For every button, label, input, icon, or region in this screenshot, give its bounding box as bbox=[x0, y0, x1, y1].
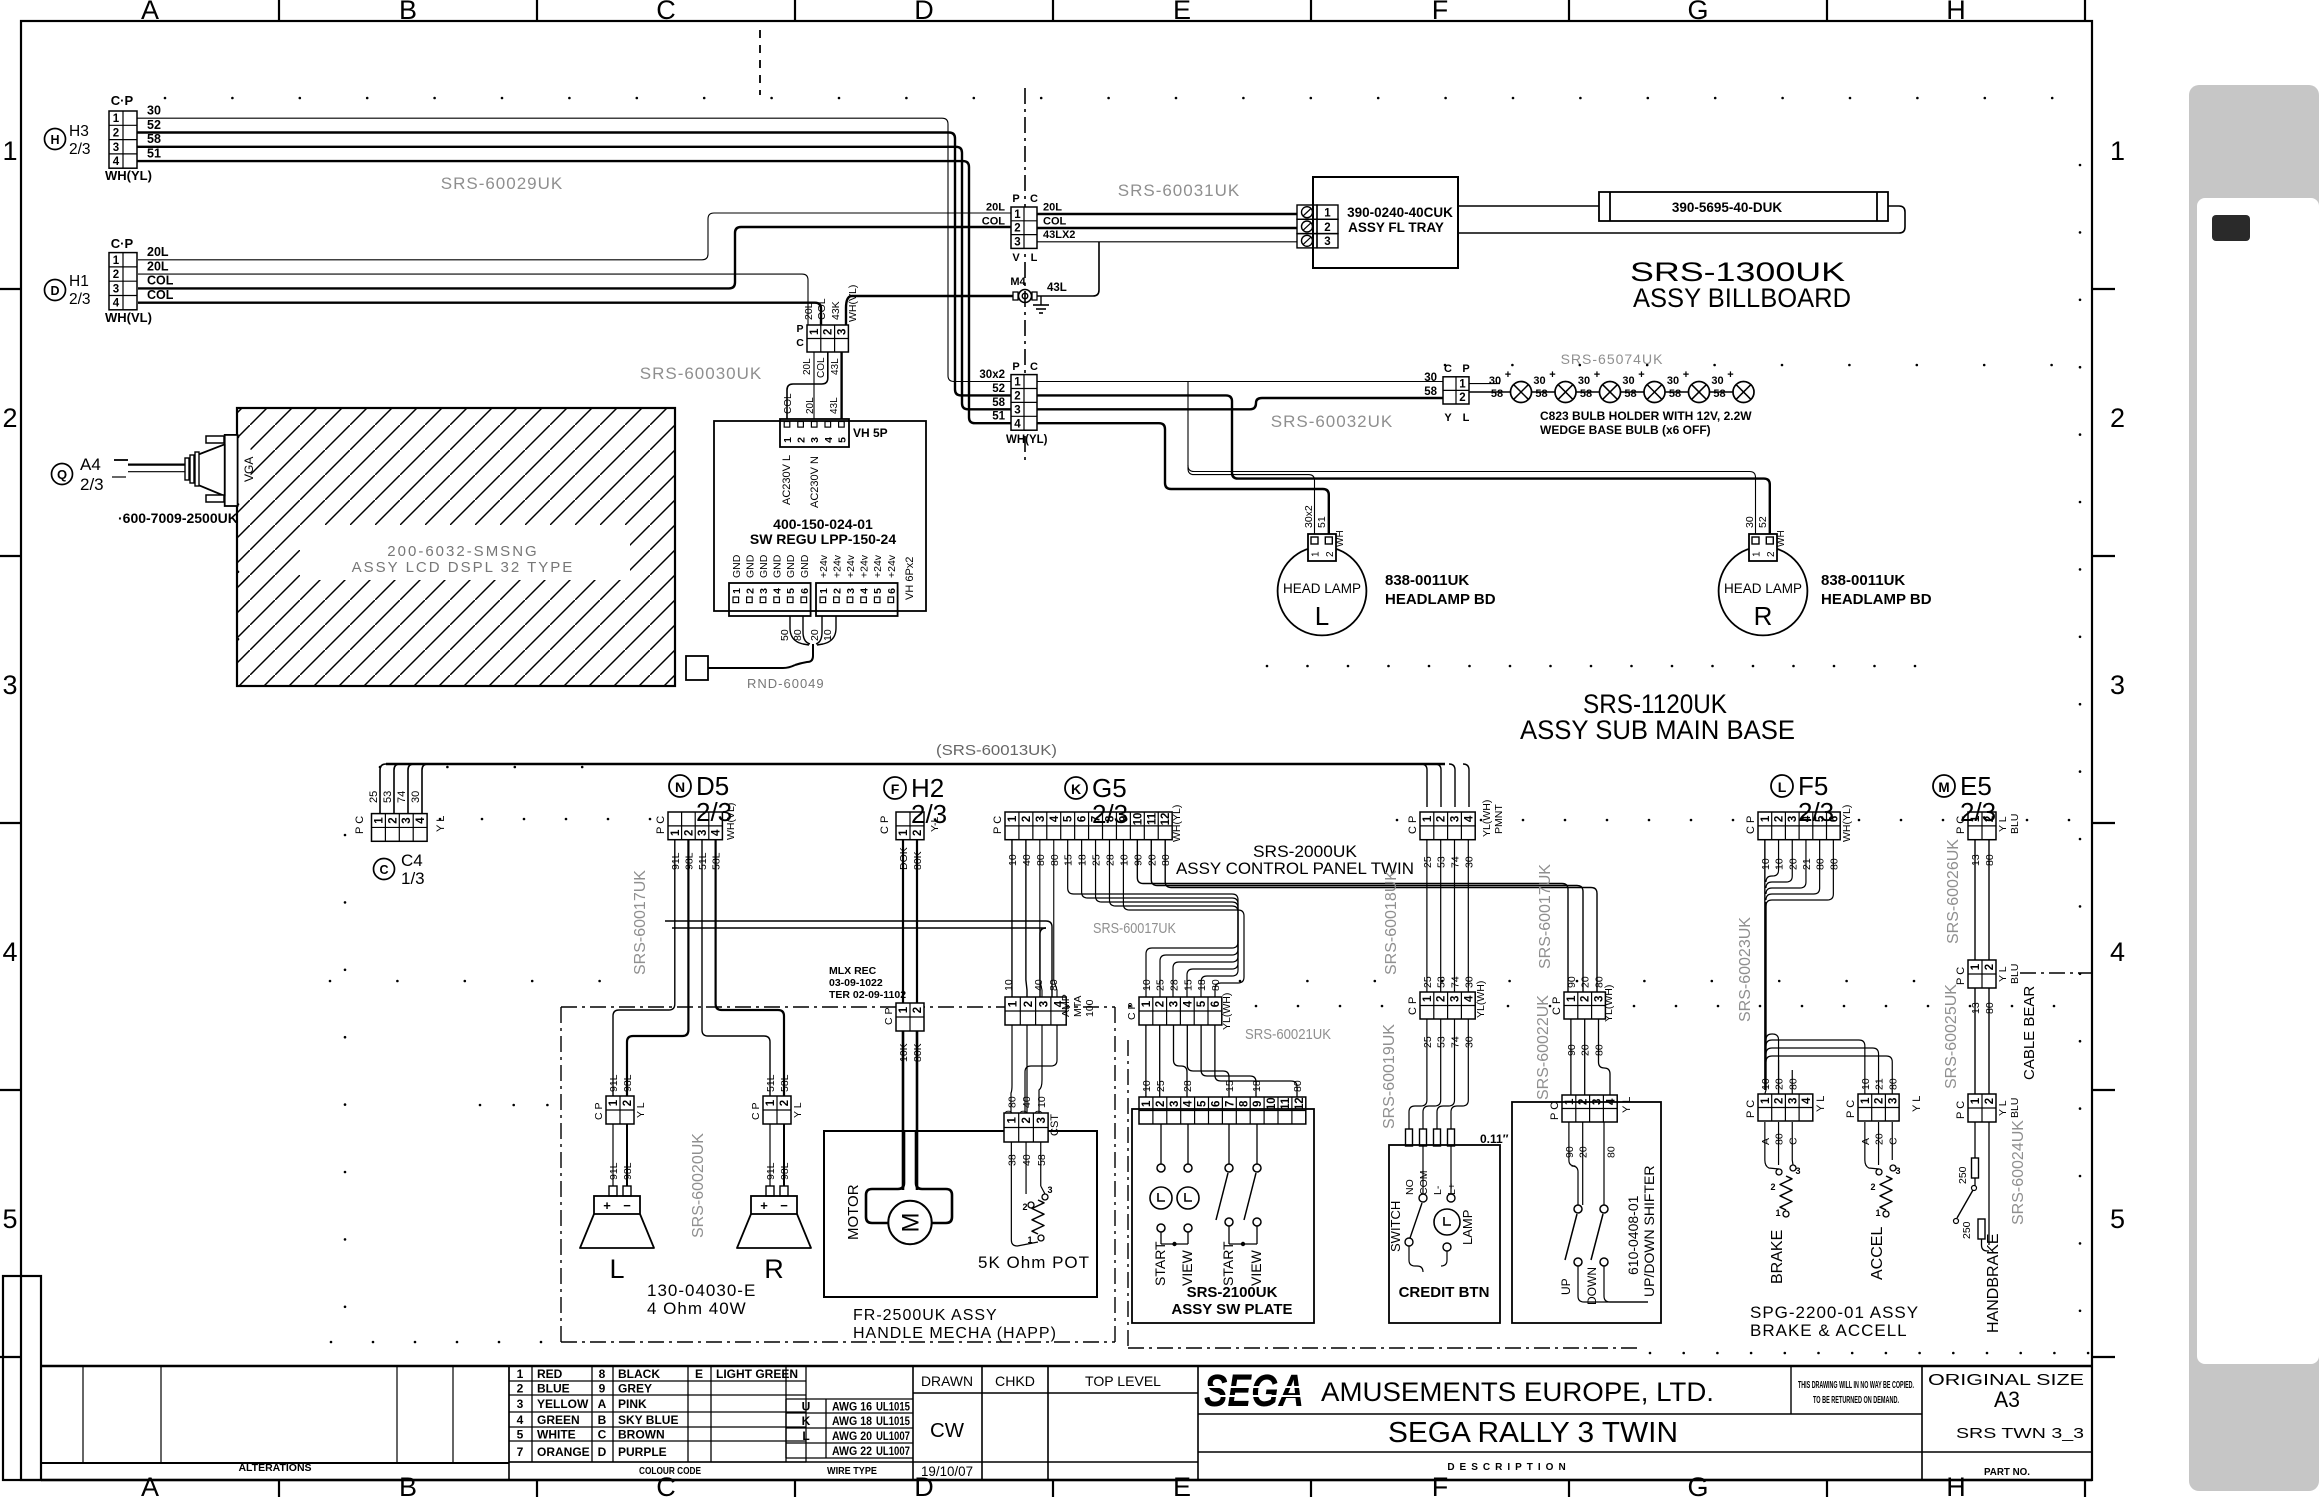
svg-text:2: 2 bbox=[683, 830, 695, 836]
svg-text:L: L bbox=[1031, 252, 1038, 264]
svg-text:N: N bbox=[675, 779, 685, 795]
svg-text:SKY BLUE: SKY BLUE bbox=[618, 1413, 678, 1427]
svg-text:20: 20 bbox=[1580, 976, 1592, 988]
svg-text:5: 5 bbox=[2110, 1204, 2125, 1234]
svg-text:6: 6 bbox=[886, 588, 898, 594]
svg-text:3: 3 bbox=[113, 283, 119, 295]
svg-text:2: 2 bbox=[1324, 222, 1330, 234]
svg-text:30: 30 bbox=[1424, 372, 1437, 384]
svg-text:CHKD: CHKD bbox=[995, 1373, 1035, 1389]
svg-text:1: 1 bbox=[765, 1099, 777, 1106]
svg-text:40: 40 bbox=[1021, 854, 1033, 866]
svg-text:5: 5 bbox=[2, 1204, 17, 1234]
svg-text:H: H bbox=[1946, 0, 1966, 25]
svg-text:30x2: 30x2 bbox=[1303, 505, 1315, 528]
svg-text:TO BE RETURNED ON DEMAND.: TO BE RETURNED ON DEMAND. bbox=[1813, 1394, 1899, 1406]
svg-text:4: 4 bbox=[1463, 815, 1475, 822]
svg-text:15: 15 bbox=[1224, 1080, 1236, 1092]
svg-text:C: C bbox=[1887, 1137, 1899, 1145]
svg-text:2/3: 2/3 bbox=[1798, 797, 1834, 827]
svg-text:WH(YL): WH(YL) bbox=[1171, 805, 1183, 842]
svg-text:UL1015: UL1015 bbox=[876, 1402, 910, 1414]
svg-text:91L: 91L bbox=[608, 1074, 620, 1092]
svg-text:COL: COL bbox=[1043, 215, 1067, 227]
svg-text:2: 2 bbox=[1766, 551, 1777, 557]
svg-text:2: 2 bbox=[1021, 1117, 1033, 1123]
svg-text:1: 1 bbox=[1014, 209, 1021, 221]
svg-text:4: 4 bbox=[1182, 1000, 1194, 1007]
svg-text:30: 30 bbox=[1622, 375, 1634, 387]
svg-text:LIGHT GREEN: LIGHT GREEN bbox=[716, 1367, 798, 1381]
svg-text:58: 58 bbox=[992, 397, 1005, 409]
svg-text:2: 2 bbox=[1580, 996, 1592, 1002]
svg-text:4: 4 bbox=[823, 437, 835, 443]
svg-text:ASSY FL TRAY: ASSY FL TRAY bbox=[1348, 220, 1444, 235]
svg-text:5: 5 bbox=[1196, 1000, 1208, 1007]
svg-text:F: F bbox=[1432, 1472, 1449, 1497]
svg-text:ASSY SW PLATE: ASSY SW PLATE bbox=[1171, 1301, 1292, 1318]
svg-text:COL: COL bbox=[783, 393, 794, 414]
svg-text:4: 4 bbox=[2110, 937, 2125, 967]
svg-text:1: 1 bbox=[1141, 1000, 1153, 1007]
svg-text:BLUE: BLUE bbox=[537, 1382, 570, 1396]
svg-text:P C: P C bbox=[1745, 1100, 1757, 1118]
svg-text:L: L bbox=[1315, 601, 1329, 631]
svg-text:A4: A4 bbox=[80, 455, 101, 474]
svg-text:4: 4 bbox=[113, 298, 120, 310]
svg-text:2: 2 bbox=[1774, 816, 1786, 822]
svg-text:11: 11 bbox=[1146, 812, 1158, 825]
svg-text:58L: 58L bbox=[779, 1074, 791, 1092]
svg-text:COM: COM bbox=[1418, 1171, 1430, 1196]
svg-text:SPG-2200-01 ASSY: SPG-2200-01 ASSY bbox=[1750, 1303, 1919, 1322]
svg-text:DESCRIPTION: DESCRIPTION bbox=[1447, 1462, 1570, 1473]
svg-text:30: 30 bbox=[1533, 375, 1545, 387]
svg-text:200-6032-SMSNG: 200-6032-SMSNG bbox=[387, 543, 538, 560]
svg-text:43L: 43L bbox=[830, 358, 841, 375]
svg-text:80: 80 bbox=[1605, 1146, 1617, 1158]
svg-text:BROWN: BROWN bbox=[618, 1428, 665, 1442]
svg-text:10: 10 bbox=[1118, 854, 1130, 866]
svg-text:C: C bbox=[796, 337, 804, 349]
svg-text:53: 53 bbox=[382, 791, 394, 803]
svg-text:YL(WH): YL(WH) bbox=[1481, 800, 1493, 837]
svg-text:6: 6 bbox=[799, 588, 811, 594]
svg-text:1: 1 bbox=[1422, 995, 1434, 1002]
svg-text:WH(YL): WH(YL) bbox=[105, 168, 152, 183]
svg-text:WH(VL): WH(VL) bbox=[105, 310, 152, 325]
svg-text:Y L: Y L bbox=[1997, 1100, 2009, 1116]
svg-text:AWG 16: AWG 16 bbox=[832, 1402, 872, 1414]
svg-text:P C: P C bbox=[1845, 1100, 1857, 1118]
svg-text:91L: 91L bbox=[608, 1162, 620, 1180]
svg-text:1: 1 bbox=[809, 328, 821, 335]
svg-text:7: 7 bbox=[517, 1445, 524, 1459]
svg-text:3: 3 bbox=[2110, 670, 2125, 700]
svg-text:HEADLAMP BD: HEADLAMP BD bbox=[1385, 591, 1496, 608]
svg-text:10: 10 bbox=[1774, 858, 1786, 870]
svg-text:E: E bbox=[1173, 0, 1191, 25]
svg-text:MLX REC: MLX REC bbox=[829, 965, 877, 977]
svg-text:2/3: 2/3 bbox=[696, 797, 732, 827]
svg-text:2/3: 2/3 bbox=[911, 799, 947, 829]
svg-text:C823 BULB HOLDER WITH 12V, 2.2: C823 BULB HOLDER WITH 12V, 2.2W bbox=[1540, 409, 1752, 423]
svg-text:H: H bbox=[1946, 1472, 1966, 1497]
svg-text:20L: 20L bbox=[147, 259, 169, 273]
svg-text:7: 7 bbox=[1224, 1101, 1236, 1107]
svg-text:AMP: AMP bbox=[1060, 994, 1072, 1017]
svg-text:GND: GND bbox=[744, 554, 756, 578]
svg-text:20: 20 bbox=[1874, 1133, 1886, 1145]
svg-text:1: 1 bbox=[1006, 1116, 1018, 1123]
svg-text:51L: 51L bbox=[765, 1074, 777, 1092]
svg-text:10: 10 bbox=[1003, 979, 1015, 991]
svg-text:390-0240-40CUK: 390-0240-40CUK bbox=[1347, 205, 1453, 220]
svg-text:NO: NO bbox=[1404, 1179, 1416, 1195]
svg-text:2/3: 2/3 bbox=[80, 475, 104, 494]
svg-text:CST: CST bbox=[1049, 1114, 1061, 1136]
svg-text:SRS-60032UK: SRS-60032UK bbox=[1271, 412, 1394, 431]
svg-text:2: 2 bbox=[1014, 390, 1020, 402]
svg-text:Y L: Y L bbox=[1997, 816, 2009, 832]
svg-text:80: 80 bbox=[1887, 1078, 1899, 1090]
svg-text:F: F bbox=[1432, 0, 1449, 25]
svg-text:SRS-60029UK: SRS-60029UK bbox=[441, 174, 564, 193]
svg-text:+24v: +24v bbox=[886, 554, 898, 578]
svg-text:80: 80 bbox=[1048, 979, 1060, 991]
svg-text:52: 52 bbox=[147, 118, 161, 132]
svg-text:1: 1 bbox=[782, 437, 794, 443]
svg-text:A: A bbox=[598, 1397, 607, 1411]
svg-text:1: 1 bbox=[1422, 815, 1434, 822]
svg-text:PURPLE: PURPLE bbox=[618, 1445, 667, 1459]
svg-text:GND: GND bbox=[758, 554, 770, 578]
svg-text:2: 2 bbox=[2, 403, 17, 433]
svg-text:K: K bbox=[802, 1414, 811, 1428]
svg-text:P: P bbox=[1012, 361, 1019, 373]
svg-text:80: 80 bbox=[1787, 1078, 1799, 1090]
svg-text:2: 2 bbox=[1022, 1202, 1027, 1212]
svg-text:18: 18 bbox=[1196, 979, 1208, 991]
svg-text:3: 3 bbox=[758, 588, 770, 594]
svg-text:52: 52 bbox=[992, 383, 1005, 395]
svg-text:250: 250 bbox=[1961, 1221, 1973, 1239]
svg-text:R: R bbox=[764, 1254, 784, 1284]
svg-text:HEAD LAMP: HEAD LAMP bbox=[1724, 581, 1802, 596]
svg-text:C P: C P bbox=[883, 1007, 895, 1025]
svg-text:C P: C P bbox=[750, 1102, 762, 1120]
svg-text:SRS-65074UK: SRS-65074UK bbox=[1561, 351, 1664, 367]
svg-text:91L: 91L bbox=[765, 1162, 777, 1180]
svg-text:30: 30 bbox=[1463, 1036, 1475, 1048]
svg-text:SRS-60022UK: SRS-60022UK bbox=[1535, 995, 1552, 1100]
svg-text:A: A bbox=[1760, 1138, 1772, 1145]
svg-text:+24v: +24v bbox=[831, 554, 843, 578]
svg-text:90: 90 bbox=[1566, 1044, 1578, 1056]
svg-text:53: 53 bbox=[1436, 856, 1448, 868]
svg-text:20: 20 bbox=[1146, 854, 1158, 866]
svg-text:53: 53 bbox=[1436, 1036, 1448, 1048]
svg-text:90: 90 bbox=[1566, 976, 1578, 988]
svg-text:+: + bbox=[1549, 369, 1555, 381]
svg-text:COLOUR CODE: COLOUR CODE bbox=[639, 1466, 701, 1477]
svg-text:P C: P C bbox=[992, 816, 1004, 834]
svg-text:L-: L- bbox=[1432, 1185, 1444, 1195]
svg-text:+: + bbox=[1683, 369, 1689, 381]
svg-text:1: 1 bbox=[1775, 1208, 1780, 1218]
svg-text:H1: H1 bbox=[69, 273, 89, 290]
svg-text:AWG 22: AWG 22 bbox=[832, 1446, 872, 1458]
svg-text:2: 2 bbox=[1155, 1001, 1167, 1007]
svg-text:80: 80 bbox=[1984, 1002, 1996, 1014]
svg-text:PMNT: PMNT bbox=[1493, 804, 1505, 834]
svg-text:3: 3 bbox=[1450, 816, 1462, 822]
svg-text:3: 3 bbox=[1038, 1001, 1050, 1007]
svg-text:80: 80 bbox=[1160, 854, 1172, 866]
svg-text:25: 25 bbox=[1422, 856, 1434, 868]
svg-text:2: 2 bbox=[1325, 551, 1336, 557]
svg-text:DOWN: DOWN bbox=[1585, 1267, 1599, 1305]
svg-text:1: 1 bbox=[2, 136, 17, 166]
svg-text:A: A bbox=[141, 0, 159, 25]
svg-text:5: 5 bbox=[517, 1428, 524, 1442]
svg-text:80: 80 bbox=[1292, 1080, 1304, 1092]
svg-text:30: 30 bbox=[410, 791, 422, 803]
svg-text:20L: 20L bbox=[147, 245, 169, 259]
svg-text:3: 3 bbox=[1047, 1185, 1052, 1195]
svg-text:4: 4 bbox=[113, 156, 120, 168]
svg-text:P: P bbox=[1462, 363, 1469, 375]
svg-text:C P: C P bbox=[593, 1102, 605, 1120]
svg-text:C: C bbox=[1787, 1137, 1799, 1145]
svg-text:5: 5 bbox=[1197, 1100, 1209, 1107]
svg-text:C P: C P bbox=[1745, 816, 1757, 834]
svg-text:30: 30 bbox=[1711, 375, 1723, 387]
svg-text:53: 53 bbox=[1436, 976, 1448, 988]
svg-text:610-0408-01: 610-0408-01 bbox=[1625, 1195, 1641, 1275]
svg-text:2: 2 bbox=[831, 588, 843, 594]
svg-text:(SRS-60013UK): (SRS-60013UK) bbox=[936, 742, 1057, 759]
svg-text:+24v: +24v bbox=[845, 554, 857, 578]
svg-text:58: 58 bbox=[1669, 388, 1681, 400]
svg-text:LAMP: LAMP bbox=[1460, 1210, 1475, 1245]
svg-text:30: 30 bbox=[1463, 856, 1475, 868]
svg-text:03-09-1022: 03-09-1022 bbox=[829, 977, 883, 989]
svg-text:6: 6 bbox=[1077, 816, 1089, 822]
svg-text:R: R bbox=[1754, 601, 1773, 631]
svg-text:1: 1 bbox=[898, 1006, 910, 1013]
svg-text:5: 5 bbox=[872, 588, 884, 594]
svg-text:UL1007: UL1007 bbox=[876, 1446, 910, 1458]
svg-text:80: 80 bbox=[1828, 858, 1840, 870]
svg-text:90: 90 bbox=[1132, 854, 1144, 866]
svg-text:Y L: Y L bbox=[792, 1102, 804, 1118]
svg-text:1: 1 bbox=[1970, 963, 1982, 970]
svg-text:2: 2 bbox=[1436, 996, 1448, 1002]
svg-text:CW: CW bbox=[930, 1420, 964, 1442]
svg-text:6: 6 bbox=[1210, 1101, 1222, 1107]
svg-text:51: 51 bbox=[1316, 516, 1328, 528]
svg-text:C·P: C·P bbox=[111, 93, 134, 108]
svg-text:YELLOW: YELLOW bbox=[537, 1397, 589, 1411]
svg-text:BLU: BLU bbox=[2009, 964, 2021, 984]
svg-text:1: 1 bbox=[1141, 1100, 1153, 1107]
svg-text:10: 10 bbox=[1141, 979, 1153, 991]
svg-text:+: + bbox=[1727, 369, 1733, 381]
svg-text:2: 2 bbox=[1870, 1182, 1875, 1192]
svg-text:58: 58 bbox=[1535, 388, 1547, 400]
svg-text:58: 58 bbox=[1491, 388, 1503, 400]
svg-text:B: B bbox=[399, 1472, 417, 1497]
svg-text:80: 80 bbox=[1815, 858, 1827, 870]
svg-text:30: 30 bbox=[1578, 375, 1590, 387]
svg-text:SRS-60018UK: SRS-60018UK bbox=[1383, 870, 1400, 975]
svg-text:10: 10 bbox=[1760, 858, 1772, 870]
svg-text:2: 2 bbox=[113, 269, 119, 281]
svg-text:WH: WH bbox=[1776, 530, 1787, 547]
svg-text:25: 25 bbox=[1422, 976, 1434, 988]
svg-text:GND: GND bbox=[799, 554, 811, 578]
svg-text:30: 30 bbox=[1744, 516, 1756, 528]
svg-text:80: 80 bbox=[1594, 976, 1606, 988]
svg-text:+24v: +24v bbox=[818, 554, 830, 578]
svg-text:BLACK: BLACK bbox=[618, 1367, 660, 1381]
svg-text:AC230V N: AC230V N bbox=[809, 456, 821, 508]
svg-text:3: 3 bbox=[1035, 816, 1047, 822]
svg-text:+: + bbox=[603, 1198, 611, 1213]
svg-text:VH 6Px2: VH 6Px2 bbox=[904, 557, 916, 600]
svg-text:SRS-60017UK: SRS-60017UK bbox=[632, 870, 649, 975]
svg-text:20: 20 bbox=[1580, 1044, 1592, 1056]
svg-text:3: 3 bbox=[1014, 237, 1020, 249]
svg-text:25: 25 bbox=[368, 791, 380, 803]
svg-text:1: 1 bbox=[818, 588, 830, 594]
svg-text:3: 3 bbox=[1787, 1098, 1799, 1104]
svg-text:40: 40 bbox=[1021, 1096, 1033, 1108]
svg-text:H: H bbox=[50, 133, 59, 147]
svg-text:SW REGU LPP-150-24: SW REGU LPP-150-24 bbox=[750, 531, 896, 547]
svg-text:1: 1 bbox=[1760, 815, 1772, 822]
svg-text:51: 51 bbox=[992, 411, 1005, 423]
svg-text:BLU: BLU bbox=[2009, 1098, 2021, 1118]
svg-text:E: E bbox=[695, 1367, 703, 1381]
svg-text:G: G bbox=[1687, 0, 1708, 25]
svg-text:1: 1 bbox=[898, 829, 910, 836]
svg-text:80: 80 bbox=[1210, 979, 1222, 991]
svg-text:−: − bbox=[623, 1198, 631, 1213]
svg-text:98L: 98L bbox=[779, 1162, 791, 1180]
svg-text:ASSY BILLBOARD: ASSY BILLBOARD bbox=[1633, 283, 1851, 313]
svg-text:4: 4 bbox=[2, 937, 17, 967]
svg-text:GREY: GREY bbox=[618, 1382, 652, 1396]
svg-text:AWG 18: AWG 18 bbox=[832, 1416, 873, 1428]
svg-text:13: 13 bbox=[1970, 854, 1982, 866]
svg-text:4: 4 bbox=[859, 588, 871, 594]
svg-text:20L: 20L bbox=[805, 397, 816, 414]
svg-text:11: 11 bbox=[1280, 1097, 1292, 1110]
svg-text:1: 1 bbox=[1311, 551, 1322, 557]
svg-text:25: 25 bbox=[1422, 1036, 1434, 1048]
svg-text:A: A bbox=[1860, 1138, 1872, 1145]
svg-text:ACCEL: ACCEL bbox=[1869, 1227, 1886, 1280]
svg-text:18: 18 bbox=[1251, 1080, 1263, 1092]
svg-text:8: 8 bbox=[599, 1367, 606, 1381]
svg-text:43L: 43L bbox=[829, 397, 840, 414]
svg-text:43L: 43L bbox=[1047, 282, 1067, 294]
svg-text:V: V bbox=[1012, 252, 1020, 264]
svg-text:L: L bbox=[1778, 779, 1787, 795]
svg-text:20: 20 bbox=[1578, 1146, 1590, 1158]
svg-text:SRS-60024UK: SRS-60024UK bbox=[2010, 1120, 2027, 1225]
svg-text:WHITE: WHITE bbox=[537, 1428, 576, 1442]
svg-text:25: 25 bbox=[1155, 979, 1167, 991]
svg-text:1: 1 bbox=[1014, 377, 1021, 389]
svg-text:PART NO.: PART NO. bbox=[1984, 1466, 2030, 1478]
svg-text:58: 58 bbox=[1580, 388, 1592, 400]
svg-text:U: U bbox=[802, 1400, 811, 1414]
svg-text:390-5695-40-DUK: 390-5695-40-DUK bbox=[1672, 200, 1783, 215]
svg-text:BLU: BLU bbox=[2009, 814, 2021, 834]
svg-text:DRAWN: DRAWN bbox=[921, 1373, 973, 1389]
svg-text:3: 3 bbox=[2, 670, 17, 700]
svg-text:HEADLAMP BD: HEADLAMP BD bbox=[1821, 591, 1932, 608]
svg-text:5: 5 bbox=[836, 437, 848, 443]
svg-text:TOP LEVEL: TOP LEVEL bbox=[1085, 1373, 1161, 1389]
svg-text:WEDGE BASE BULB (x6 OFF): WEDGE BASE BULB (x6 OFF) bbox=[1540, 423, 1711, 437]
svg-text:28: 28 bbox=[1182, 1080, 1194, 1092]
svg-text:19/10/07: 19/10/07 bbox=[921, 1463, 973, 1479]
svg-text:80: 80 bbox=[1035, 854, 1047, 866]
svg-text:COL: COL bbox=[147, 274, 174, 288]
svg-text:F: F bbox=[891, 781, 900, 797]
svg-text:25: 25 bbox=[1091, 854, 1103, 866]
svg-text:400-150-024-01: 400-150-024-01 bbox=[773, 516, 873, 532]
svg-text:4: 4 bbox=[415, 817, 427, 824]
svg-text:YL(WH): YL(WH) bbox=[1603, 985, 1615, 1022]
svg-text:3: 3 bbox=[845, 588, 857, 594]
svg-text:VGA: VGA bbox=[242, 457, 256, 482]
svg-text:20: 20 bbox=[1787, 858, 1799, 870]
svg-text:90: 90 bbox=[1564, 1146, 1576, 1158]
svg-text:2: 2 bbox=[1774, 1098, 1786, 1104]
svg-text:20: 20 bbox=[809, 629, 821, 641]
svg-text:SEGA RALLY 3 TWIN: SEGA RALLY 3 TWIN bbox=[1388, 1417, 1678, 1449]
svg-text:START: START bbox=[1152, 1241, 1168, 1286]
svg-text:3: 3 bbox=[1795, 1166, 1800, 1176]
svg-text:L+: L+ bbox=[1446, 1183, 1458, 1195]
svg-text:2: 2 bbox=[796, 437, 808, 443]
svg-text:WH(VL): WH(VL) bbox=[847, 285, 859, 322]
svg-text:YL(WH): YL(WH) bbox=[1475, 981, 1487, 1018]
svg-text:D: D bbox=[598, 1445, 607, 1459]
svg-text:1: 1 bbox=[608, 1099, 620, 1106]
svg-text:52: 52 bbox=[1757, 516, 1769, 528]
svg-text:2: 2 bbox=[1459, 392, 1465, 404]
svg-text:M: M bbox=[898, 1213, 925, 1233]
svg-text:ASSY SUB MAIN BASE: ASSY SUB MAIN BASE bbox=[1520, 715, 1795, 745]
svg-text:80: 80 bbox=[1049, 854, 1061, 866]
svg-text:E: E bbox=[1173, 1472, 1191, 1497]
svg-text:91L: 91L bbox=[670, 852, 682, 870]
svg-text:30: 30 bbox=[147, 104, 161, 118]
svg-text:28: 28 bbox=[1169, 979, 1181, 991]
svg-text:C P: C P bbox=[879, 816, 891, 834]
svg-text:3: 3 bbox=[1324, 236, 1330, 248]
svg-text:4: 4 bbox=[1463, 995, 1475, 1002]
svg-text:P C: P C bbox=[1955, 967, 1967, 985]
svg-text:15: 15 bbox=[1182, 979, 1194, 991]
svg-text:CREDIT BTN: CREDIT BTN bbox=[1399, 1284, 1490, 1301]
